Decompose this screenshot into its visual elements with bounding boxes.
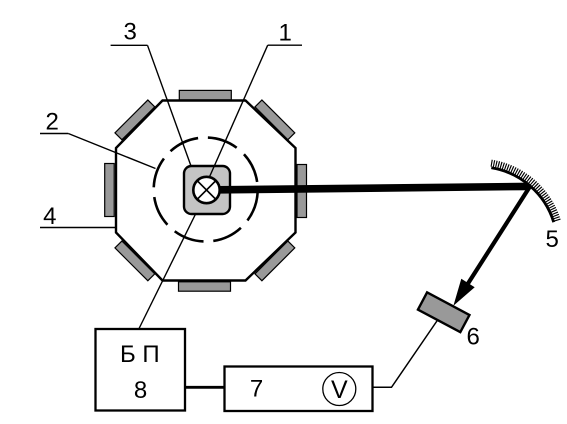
svg-text:4: 4 xyxy=(43,203,56,230)
wire lamp to power supply xyxy=(139,202,202,329)
power supply box 8 xyxy=(96,329,186,411)
mirror hatching xyxy=(491,163,557,221)
svg-text:3: 3 xyxy=(124,19,137,46)
light beam xyxy=(219,186,530,189)
wire detector to meter xyxy=(373,313,443,387)
magnet pole top xyxy=(179,90,231,99)
dashed orbit circle 2 xyxy=(152,135,260,243)
label 2 underline xyxy=(40,133,68,135)
magnet pole top-left xyxy=(115,100,155,140)
svg-text:5: 5 xyxy=(546,226,559,253)
lamp housing block 3 xyxy=(184,166,230,214)
svg-text:1: 1 xyxy=(279,20,292,47)
svg-text:2: 2 xyxy=(46,109,59,136)
reflected beam shaft xyxy=(468,187,530,284)
svg-text:6: 6 xyxy=(467,323,480,350)
label 1 leader xyxy=(209,45,268,178)
label 2 leader xyxy=(68,134,155,169)
vacuum chamber octagon 4 xyxy=(116,101,296,281)
label 4 leader xyxy=(40,227,116,229)
reflected beam arrowhead xyxy=(453,279,474,306)
svg-text:Б П: Б П xyxy=(120,341,160,368)
lamp 1 xyxy=(193,177,219,203)
magnet pole left xyxy=(105,164,115,217)
wire power supply to meter xyxy=(185,386,225,389)
magnet pole bottom-right xyxy=(255,241,295,281)
concave mirror 5 xyxy=(491,168,553,222)
svg-text:7: 7 xyxy=(250,376,263,403)
label 1 underline xyxy=(268,44,302,46)
meter box 7 xyxy=(225,367,373,412)
svg-text:V: V xyxy=(331,376,348,404)
svg-text:8: 8 xyxy=(134,377,147,404)
label 3 underline xyxy=(111,44,148,46)
magnet pole bottom xyxy=(179,282,231,291)
magnet pole right xyxy=(297,165,307,218)
photodetector 6 xyxy=(418,292,470,332)
magnet pole bottom-left xyxy=(115,241,155,281)
voltmeter V xyxy=(323,373,356,406)
magnet pole top-right xyxy=(255,100,295,140)
label 3 leader xyxy=(148,45,192,166)
